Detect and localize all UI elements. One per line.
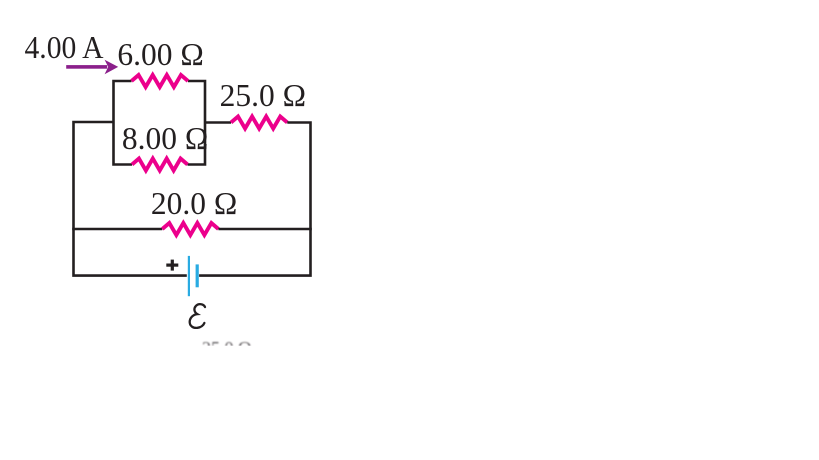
clipped label 25.0 ohm (bottom figure fragment) bbox=[202, 338, 251, 358]
svg-text:25.0 Ω: 25.0 Ω bbox=[202, 338, 251, 358]
wire: middle branch right bbox=[218, 228, 311, 231]
parallel box right edge bbox=[188, 81, 206, 165]
svg-text:8.00 Ω: 8.00 Ω bbox=[122, 121, 208, 156]
battery short plate bbox=[196, 264, 199, 287]
svg-text:6.00 Ω: 6.00 Ω bbox=[117, 37, 203, 72]
battery long plate bbox=[188, 256, 190, 296]
resistor 25.0 ohm bbox=[231, 117, 287, 129]
svg-text:20.0 Ω: 20.0 Ω bbox=[151, 186, 237, 221]
resistor 8.00 ohm bbox=[132, 159, 188, 171]
wire: resistor to right vertical + bottom right bbox=[199, 123, 310, 276]
current arrow bbox=[66, 60, 118, 75]
svg-text:4.00 A: 4.00 A bbox=[25, 30, 104, 65]
wire: middle branch left bbox=[72, 228, 162, 231]
resistor 6.00 ohm bbox=[132, 75, 189, 87]
resistor 20.0 ohm bbox=[162, 223, 218, 235]
parallel box left edge bbox=[114, 81, 133, 165]
wire: box right to 25 ohm resistor bbox=[205, 121, 231, 124]
svg-text:25.0 Ω: 25.0 Ω bbox=[220, 78, 306, 113]
wire: left mid + left vertical + bottom left bbox=[74, 122, 187, 276]
battery plus sign bbox=[166, 260, 178, 271]
emf script E label bbox=[190, 304, 205, 328]
